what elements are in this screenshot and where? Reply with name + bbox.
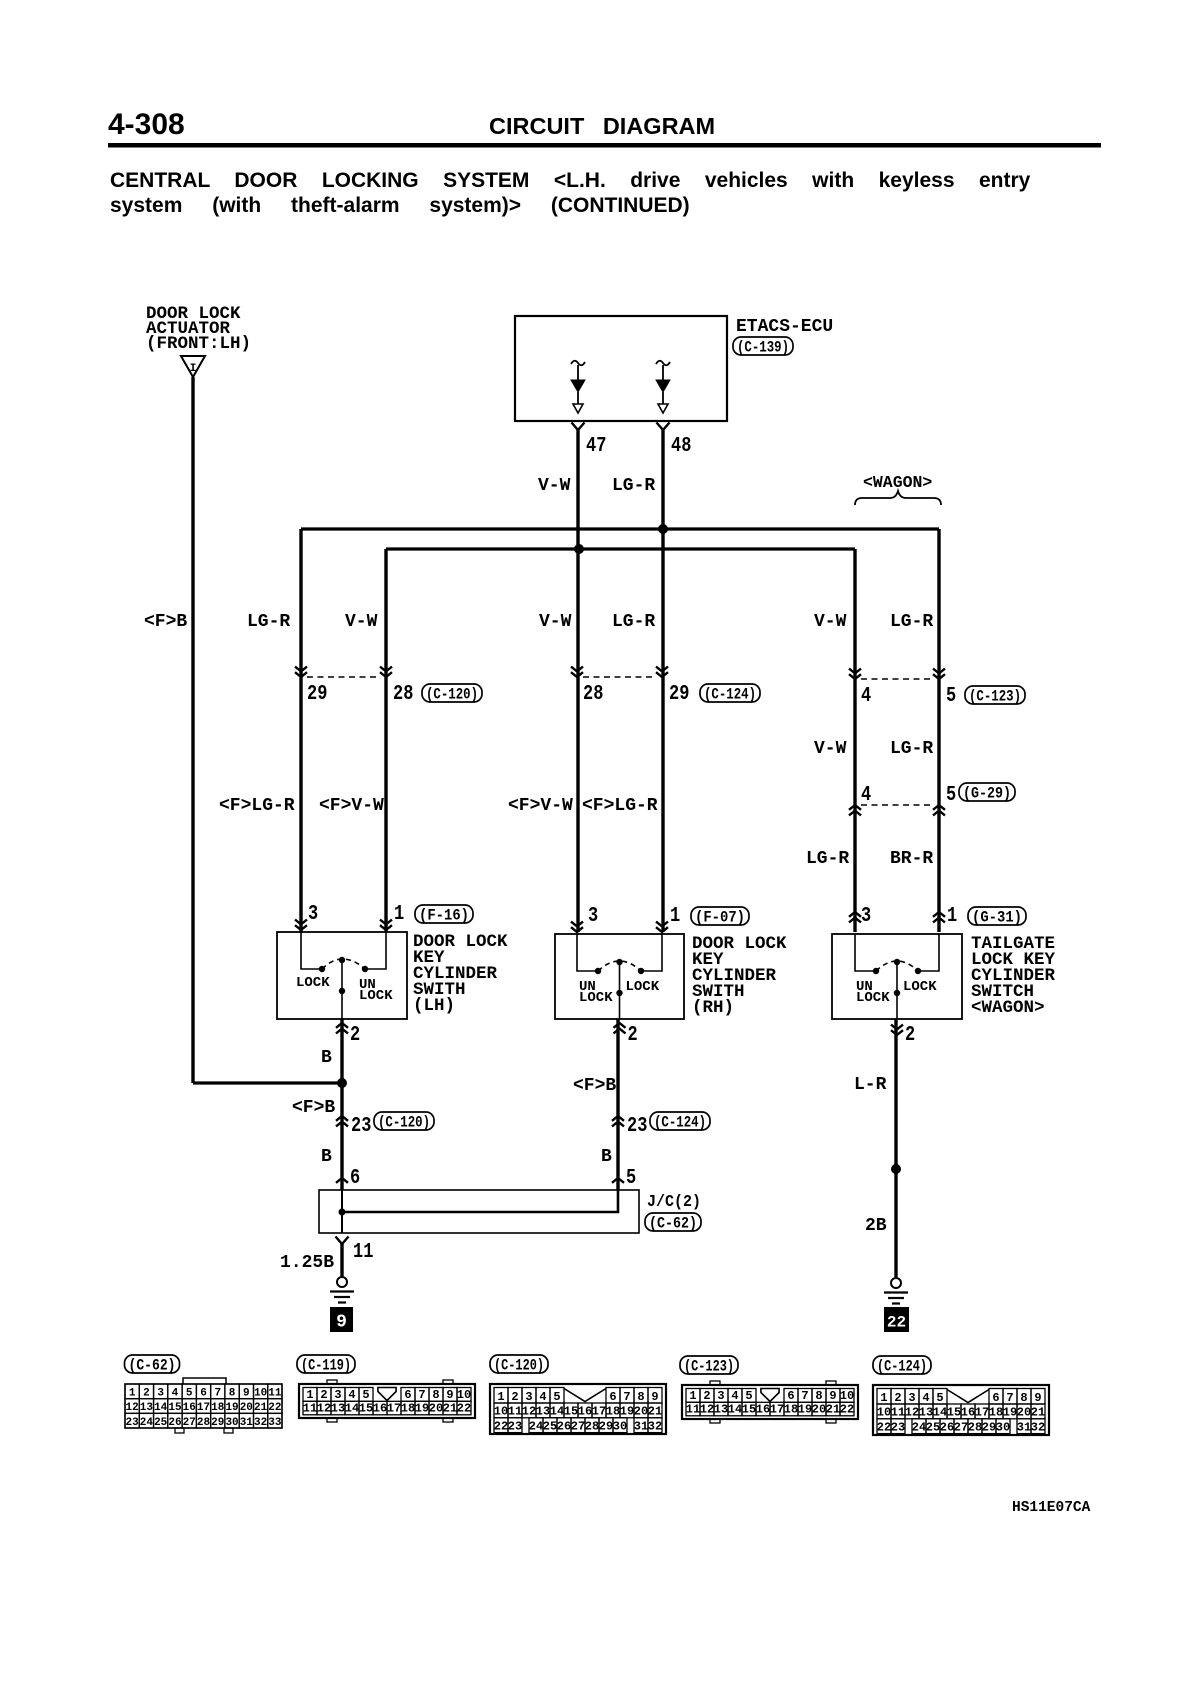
svg-text:27: 27 — [954, 1420, 968, 1434]
svg-text:9: 9 — [1034, 1391, 1041, 1405]
door lock key cylinder switch RH (F-07) — [555, 934, 684, 1019]
ground symbol right — [891, 1278, 901, 1288]
svg-text:2: 2 — [511, 1390, 518, 1404]
svg-text:15: 15 — [359, 1402, 373, 1416]
svg-text:B: B — [601, 1147, 612, 1167]
svg-text:3: 3 — [717, 1389, 724, 1403]
junction connector J/C(2) box — [319, 1190, 639, 1233]
svg-text:(C-139): (C-139) — [737, 338, 789, 356]
svg-text:31: 31 — [240, 1417, 254, 1429]
svg-text:9: 9 — [829, 1389, 836, 1403]
svg-text:5: 5 — [946, 685, 956, 708]
pin 6 chevron — [336, 1178, 348, 1183]
wire from actuator down — [191, 377, 194, 1083]
tailgate lock key cylinder switch (G-31) — [832, 934, 962, 1019]
svg-text:2: 2 — [320, 1388, 327, 1402]
bus wire lower (V-W) — [386, 547, 855, 550]
svg-text:16: 16 — [961, 1406, 975, 1420]
svg-text:26: 26 — [940, 1420, 954, 1434]
svg-text:8: 8 — [1020, 1391, 1027, 1405]
wire LG-R from pin 48 — [661, 430, 664, 932]
svg-text:11: 11 — [303, 1402, 317, 1416]
svg-text:18: 18 — [784, 1403, 798, 1417]
svg-text:<F>B: <F>B — [292, 1098, 335, 1118]
svg-text:4: 4 — [861, 784, 871, 807]
svg-text:V-W: V-W — [538, 476, 571, 496]
diode D2 inside ECU (pin 48) — [656, 361, 670, 366]
svg-text:LOCK: LOCK — [296, 975, 330, 991]
wire B from LH switch pin 2 — [340, 1019, 343, 1190]
svg-text:5: 5 — [553, 1390, 560, 1404]
svg-text:20: 20 — [812, 1403, 826, 1417]
connector pinout C-124 table — [873, 1356, 931, 1374]
svg-text:LG-R: LG-R — [612, 612, 655, 632]
svg-text:23: 23 — [126, 1417, 140, 1429]
junction dot B — [337, 1078, 347, 1088]
svg-text:3: 3 — [334, 1388, 341, 1402]
J/C internal wire — [342, 1190, 618, 1212]
svg-text:system (with theft-alarm syste: system (with theft-alarm system)> (CONTI… — [110, 194, 690, 217]
svg-text:1: 1 — [129, 1387, 136, 1399]
svg-text:2B: 2B — [865, 1216, 887, 1236]
svg-text:1: 1 — [306, 1388, 313, 1402]
svg-text:(LH): (LH) — [413, 996, 455, 1016]
svg-text:29: 29 — [982, 1420, 996, 1434]
svg-text:14: 14 — [154, 1402, 168, 1414]
svg-text:7: 7 — [801, 1389, 808, 1403]
svg-text:22: 22 — [268, 1402, 281, 1414]
svg-text:18: 18 — [989, 1406, 1003, 1420]
svg-text:29: 29 — [211, 1417, 224, 1429]
svg-text:23: 23 — [891, 1420, 905, 1434]
svg-text:1: 1 — [947, 905, 957, 928]
svg-text:CENTRAL DOOR LOCKING SYSTEM <L: CENTRAL DOOR LOCKING SYSTEM <L.H. drive … — [110, 169, 1031, 192]
svg-text:21: 21 — [648, 1405, 662, 1419]
svg-text:17: 17 — [975, 1406, 989, 1420]
svg-text:16: 16 — [756, 1403, 770, 1417]
svg-text:26: 26 — [557, 1419, 571, 1433]
svg-text:4-308: 4-308 — [108, 108, 185, 141]
ground ref 22 — [884, 1307, 909, 1332]
svg-text:2: 2 — [628, 1024, 638, 1047]
svg-text:B: B — [321, 1048, 332, 1068]
svg-text:BR-R: BR-R — [890, 849, 933, 869]
WAGON brace — [855, 491, 941, 505]
svg-text:(C-123): (C-123) — [969, 687, 1021, 705]
svg-text:6: 6 — [992, 1391, 999, 1405]
svg-text:6: 6 — [609, 1390, 616, 1404]
svg-text:30: 30 — [996, 1420, 1010, 1434]
wire LG-R right branch — [937, 529, 940, 932]
junction dot L-R — [891, 1164, 901, 1174]
svg-text:11: 11 — [686, 1403, 700, 1417]
svg-text:I: I — [190, 363, 197, 375]
svg-text:(C-120): (C-120) — [426, 685, 478, 703]
svg-text:ETACS-ECU: ETACS-ECU — [736, 317, 833, 337]
svg-text:5: 5 — [745, 1389, 752, 1403]
svg-text:28: 28 — [393, 683, 413, 706]
svg-text:2: 2 — [350, 1024, 360, 1047]
svg-text:1: 1 — [670, 905, 680, 928]
svg-text:13: 13 — [140, 1402, 154, 1414]
svg-text:26: 26 — [168, 1417, 181, 1429]
svg-text:(C-62): (C-62) — [129, 1356, 176, 1374]
svg-text:13: 13 — [714, 1403, 728, 1417]
svg-text:13: 13 — [331, 1402, 345, 1416]
svg-text:(C-62): (C-62) — [649, 1214, 697, 1232]
svg-text:14: 14 — [728, 1403, 742, 1417]
connector crossing C-120 pins 29/28 — [295, 672, 307, 677]
connector crossing C-124 pins 28/29 — [571, 672, 583, 677]
svg-text:20: 20 — [240, 1402, 253, 1414]
wire V-W left branch — [384, 549, 387, 932]
svg-text:30: 30 — [225, 1417, 238, 1429]
svg-text:(G-31): (G-31) — [972, 908, 1022, 926]
svg-text:25: 25 — [543, 1419, 557, 1433]
svg-text:14: 14 — [550, 1405, 564, 1419]
svg-text:7: 7 — [1006, 1391, 1013, 1405]
svg-text:29: 29 — [599, 1419, 613, 1433]
svg-text:4: 4 — [348, 1388, 355, 1402]
svg-text:19: 19 — [225, 1402, 238, 1414]
svg-text:25: 25 — [154, 1417, 168, 1429]
svg-text:LOCK: LOCK — [579, 990, 613, 1006]
svg-text:32: 32 — [254, 1417, 267, 1429]
svg-text:14: 14 — [933, 1406, 947, 1420]
connector pinout C-123 — [680, 1356, 738, 1374]
svg-text:6: 6 — [350, 1167, 360, 1190]
svg-text:(F-07): (F-07) — [695, 908, 745, 926]
svg-text:3: 3 — [588, 905, 598, 928]
svg-text:48: 48 — [671, 435, 691, 458]
connector crossing G-29 pins 4/5 — [849, 805, 861, 810]
ground wire left — [340, 1243, 343, 1277]
svg-text:2: 2 — [894, 1391, 901, 1405]
svg-text:(C-123): (C-123) — [684, 1357, 734, 1375]
svg-text:18: 18 — [401, 1402, 415, 1416]
svg-text:LOCK: LOCK — [856, 990, 890, 1006]
svg-text:33: 33 — [268, 1417, 282, 1429]
pin 47 female terminal — [572, 423, 585, 431]
svg-text:LOCK: LOCK — [626, 979, 660, 995]
svg-text:<WAGON>: <WAGON> — [971, 998, 1045, 1018]
svg-text:24: 24 — [140, 1417, 154, 1429]
svg-text:2: 2 — [905, 1024, 915, 1047]
svg-text:20: 20 — [634, 1405, 648, 1419]
ground ref 9 — [330, 1307, 353, 1332]
connector pinout C-120 table — [490, 1355, 548, 1373]
svg-text:4: 4 — [539, 1390, 546, 1404]
svg-text:5: 5 — [186, 1387, 193, 1399]
connector ref C-139 — [733, 337, 793, 355]
svg-text:22: 22 — [887, 1314, 906, 1332]
svg-text:5: 5 — [626, 1167, 636, 1190]
svg-text:(C-120): (C-120) — [494, 1356, 544, 1374]
wire V-W from pin 47 — [576, 430, 579, 932]
svg-text:LG-R: LG-R — [806, 849, 849, 869]
svg-text:30: 30 — [613, 1419, 627, 1433]
svg-text:(C-119): (C-119) — [301, 1356, 351, 1374]
pin 48 female terminal — [657, 423, 670, 431]
header rule — [108, 143, 1101, 148]
ETACS-ECU box U1 — [515, 316, 727, 421]
svg-text:12: 12 — [522, 1405, 536, 1419]
svg-text:21: 21 — [254, 1402, 268, 1414]
svg-text:19: 19 — [798, 1403, 812, 1417]
svg-text:5: 5 — [936, 1391, 943, 1405]
svg-text:(G-29): (G-29) — [963, 784, 1011, 802]
wire L-R from tailgate pin 2 — [894, 1019, 897, 1277]
svg-text:16: 16 — [373, 1402, 387, 1416]
junction dot V-W bus — [574, 544, 584, 554]
svg-text:9: 9 — [243, 1387, 250, 1399]
svg-text:LOCK: LOCK — [903, 979, 937, 995]
svg-text:9: 9 — [651, 1390, 658, 1404]
svg-text:1: 1 — [497, 1390, 504, 1404]
svg-text:10: 10 — [494, 1405, 508, 1419]
svg-text:22: 22 — [457, 1402, 471, 1416]
svg-text:15: 15 — [564, 1405, 578, 1419]
svg-text:3: 3 — [157, 1387, 164, 1399]
svg-text:CIRCUIT DIAGRAM: CIRCUIT DIAGRAM — [489, 113, 715, 139]
svg-text:6: 6 — [787, 1389, 794, 1403]
svg-text:28: 28 — [583, 683, 603, 706]
wire actuator horizontal to junction — [193, 1081, 342, 1084]
svg-text:(FRONT:LH): (FRONT:LH) — [146, 334, 251, 354]
connector pinout C-119 — [297, 1355, 355, 1373]
svg-text:8: 8 — [229, 1387, 236, 1399]
svg-text:1.25B: 1.25B — [280, 1253, 334, 1273]
svg-text:15: 15 — [168, 1402, 182, 1414]
svg-text:<F>B: <F>B — [144, 612, 187, 632]
svg-text:15: 15 — [947, 1406, 961, 1420]
svg-text:20: 20 — [1017, 1406, 1031, 1420]
connector ref C-120 lower — [374, 1112, 434, 1130]
connector crossing 23 C-124 — [612, 1116, 624, 1121]
svg-text:<F>LG-R: <F>LG-R — [582, 796, 658, 816]
door lock key cylinder switch LH (F-16) — [277, 932, 407, 1019]
svg-text:(C-124): (C-124) — [877, 1357, 927, 1375]
svg-text:11: 11 — [508, 1405, 522, 1419]
wire from RH switch pin 2 — [616, 1019, 619, 1190]
svg-text:9: 9 — [336, 1313, 347, 1333]
svg-text:V-W: V-W — [814, 739, 847, 759]
svg-text:1: 1 — [689, 1389, 696, 1403]
svg-text:10: 10 — [840, 1389, 854, 1403]
svg-text:27: 27 — [183, 1417, 196, 1429]
svg-text:6: 6 — [404, 1388, 411, 1402]
svg-text:22: 22 — [877, 1420, 891, 1434]
svg-text:LG-R: LG-R — [890, 612, 933, 632]
svg-text:28: 28 — [197, 1417, 211, 1429]
svg-text:8: 8 — [637, 1390, 644, 1404]
svg-text:28: 28 — [585, 1419, 599, 1433]
svg-text:7: 7 — [418, 1388, 425, 1402]
svg-text:19: 19 — [1003, 1406, 1017, 1420]
svg-text:22: 22 — [840, 1403, 854, 1417]
svg-text:LG-R: LG-R — [612, 476, 655, 496]
svg-text:3: 3 — [308, 903, 318, 926]
svg-text:(F-16): (F-16) — [419, 906, 469, 924]
svg-text:1: 1 — [394, 903, 404, 926]
junction dot LG-R bus — [658, 524, 668, 534]
connector crossing C-123 pins 4/5 — [849, 674, 861, 679]
svg-text:5: 5 — [946, 784, 956, 807]
svg-text:11: 11 — [891, 1406, 905, 1420]
svg-text:1: 1 — [880, 1391, 887, 1405]
pin 5 chevron — [612, 1178, 624, 1183]
diode D1 inside ECU (pin 47) — [571, 361, 585, 366]
svg-text:10: 10 — [877, 1406, 891, 1420]
wire V-W right branch — [853, 549, 856, 932]
svg-text:(C-124): (C-124) — [654, 1113, 706, 1131]
svg-text:(C-120): (C-120) — [378, 1113, 430, 1131]
svg-text:L-R: L-R — [854, 1075, 887, 1095]
svg-text:10: 10 — [254, 1387, 267, 1399]
svg-text:47: 47 — [586, 435, 606, 458]
J/C through wire — [341, 1190, 343, 1233]
svg-text:3: 3 — [525, 1390, 532, 1404]
svg-text:13: 13 — [536, 1405, 550, 1419]
svg-text:6: 6 — [200, 1387, 207, 1399]
wire LG-R left branch — [299, 529, 302, 932]
svg-text:17: 17 — [197, 1402, 210, 1414]
svg-text:23: 23 — [508, 1419, 522, 1433]
svg-text:31: 31 — [1017, 1420, 1031, 1434]
svg-text:(C-124): (C-124) — [704, 685, 756, 703]
svg-text:31: 31 — [634, 1419, 648, 1433]
svg-text:5: 5 — [362, 1388, 369, 1402]
svg-text:27: 27 — [571, 1419, 585, 1433]
ground symbol left — [337, 1277, 347, 1287]
svg-text:18: 18 — [606, 1405, 620, 1419]
svg-text:18: 18 — [211, 1402, 225, 1414]
svg-text:25: 25 — [926, 1420, 940, 1434]
svg-text:4: 4 — [172, 1387, 179, 1399]
svg-text:4: 4 — [922, 1391, 929, 1405]
svg-text:<F>B: <F>B — [573, 1076, 616, 1096]
svg-text:16: 16 — [183, 1402, 196, 1414]
svg-text:V-W: V-W — [345, 612, 378, 632]
svg-text:LG-R: LG-R — [247, 612, 290, 632]
svg-text:21: 21 — [443, 1402, 457, 1416]
svg-text:32: 32 — [648, 1419, 662, 1433]
actuator connector triangle — [181, 356, 205, 377]
svg-text:23: 23 — [627, 1115, 647, 1138]
svg-text:4: 4 — [731, 1389, 738, 1403]
svg-text:23: 23 — [351, 1115, 371, 1138]
svg-text:(RH): (RH) — [692, 998, 734, 1018]
svg-text:19: 19 — [620, 1405, 634, 1419]
svg-text:15: 15 — [742, 1403, 756, 1417]
svg-text:9: 9 — [446, 1388, 453, 1402]
svg-text:16: 16 — [578, 1405, 592, 1419]
svg-text:7: 7 — [623, 1390, 630, 1404]
svg-text:12: 12 — [700, 1403, 714, 1417]
svg-text:10: 10 — [457, 1388, 471, 1402]
svg-text:<F>V-W: <F>V-W — [319, 796, 384, 816]
svg-text:LOCK: LOCK — [359, 988, 393, 1004]
svg-text:3: 3 — [861, 905, 871, 928]
connector pinout C-62 — [125, 1355, 180, 1373]
connector ref C-62 — [645, 1213, 701, 1231]
svg-text:B: B — [321, 1147, 332, 1167]
svg-text:12: 12 — [905, 1406, 919, 1420]
bus wire upper (LG-R) — [301, 527, 939, 530]
connector crossing 23 C-120 — [336, 1116, 348, 1121]
svg-text:2: 2 — [143, 1387, 150, 1399]
svg-text:24: 24 — [529, 1419, 543, 1433]
svg-text:3: 3 — [908, 1391, 915, 1405]
svg-text:14: 14 — [345, 1402, 359, 1416]
svg-text:29: 29 — [669, 683, 689, 706]
svg-text:24: 24 — [912, 1420, 926, 1434]
svg-text:V-W: V-W — [539, 612, 572, 632]
svg-text:21: 21 — [1031, 1406, 1045, 1420]
svg-text:8: 8 — [815, 1389, 822, 1403]
svg-text:22: 22 — [494, 1419, 508, 1433]
svg-text:<F>V-W: <F>V-W — [508, 796, 573, 816]
svg-text:8: 8 — [432, 1388, 439, 1402]
svg-text:20: 20 — [429, 1402, 443, 1416]
svg-text:2: 2 — [703, 1389, 710, 1403]
svg-text:32: 32 — [1031, 1420, 1045, 1434]
svg-text:4: 4 — [861, 685, 871, 708]
svg-text:<F>LG-R: <F>LG-R — [219, 796, 295, 816]
svg-text:LG-R: LG-R — [890, 739, 933, 759]
svg-text:19: 19 — [415, 1402, 429, 1416]
svg-text:7: 7 — [214, 1387, 221, 1399]
svg-text:J/C(2): J/C(2) — [647, 1193, 701, 1212]
svg-text:HS11E07CA: HS11E07CA — [1012, 1500, 1091, 1516]
svg-text:11: 11 — [353, 1241, 373, 1264]
svg-text:12: 12 — [126, 1402, 139, 1414]
svg-text:21: 21 — [826, 1403, 840, 1417]
svg-text:17: 17 — [592, 1405, 606, 1419]
svg-text:17: 17 — [770, 1403, 784, 1417]
svg-text:11: 11 — [268, 1387, 282, 1399]
pin 11 terminal — [336, 1237, 349, 1245]
svg-text:29: 29 — [307, 683, 327, 706]
svg-text:13: 13 — [919, 1406, 933, 1420]
svg-text:V-W: V-W — [814, 612, 847, 632]
svg-text:17: 17 — [387, 1402, 401, 1416]
svg-text:12: 12 — [317, 1402, 331, 1416]
connector ref C-124 lower — [650, 1112, 710, 1130]
svg-text:28: 28 — [968, 1420, 982, 1434]
